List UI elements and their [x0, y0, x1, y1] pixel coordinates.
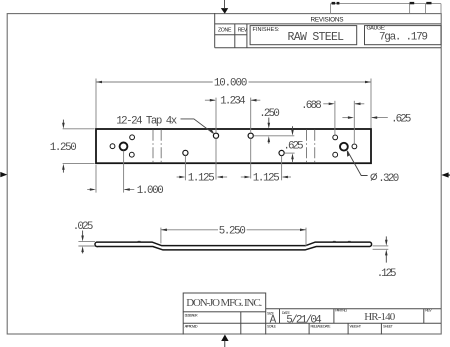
svg-text:SHEET: SHEET [383, 325, 394, 329]
revisions table [215, 13, 441, 48]
1.125a ext [184, 155, 186, 180]
1.125 dim b [241, 176, 291, 178]
svg-text:HR-140: HR-140 [364, 311, 396, 323]
centering mark right [441, 172, 450, 177]
svg-text:REVISIONS: REVISIONS [311, 16, 344, 23]
10.000 ext left / right [95, 79, 97, 129]
svg-text:1.000: 1.000 [137, 185, 164, 197]
svg-text:10.000: 10.000 [214, 78, 248, 90]
1.000 dim [87, 189, 134, 191]
svg-text:REV: REV [238, 27, 248, 33]
.688/.625 cols [334, 101, 336, 135]
plate outline [96, 129, 371, 163]
svg-text:1.234: 1.234 [220, 95, 246, 107]
centering mark top [221, 0, 228, 14]
svg-text:WEIGHT: WEIGHT [350, 325, 362, 329]
svg-text:ZONE: ZONE [218, 27, 232, 33]
col B x=250.7 [250, 98, 252, 133]
col A x=216 [215, 98, 217, 133]
holes [110, 133, 357, 157]
svg-text:12-24 Tap 4x: 12-24 Tap 4x [116, 115, 177, 127]
tap row ext to .625 [254, 135, 295, 137]
svg-text:A: A [270, 314, 277, 326]
svg-text:.625: .625 [283, 141, 303, 153]
svg-text:.688: .688 [301, 100, 322, 112]
side view hole bumps [137, 241, 351, 242]
svg-text:5.250: 5.250 [219, 225, 246, 237]
svg-text:FINISHES:: FINISHES: [253, 27, 280, 33]
svg-text:DESIGNER: DESIGNER [185, 313, 198, 317]
svg-text:.250: .250 [259, 108, 280, 120]
.125 dim [373, 246, 389, 249]
svg-text:1.250: 1.250 [50, 142, 77, 154]
bend centerlines [153, 130, 315, 163]
.625 top right dim [342, 117, 387, 119]
svg-text:5/21/04: 5/21/04 [286, 314, 322, 326]
svg-text:1.125: 1.125 [253, 173, 280, 185]
1.125b ext [281, 156, 283, 181]
svg-text:REV: REV [425, 309, 432, 313]
1.234 dim [205, 99, 260, 101]
svg-text:PART NO.: PART NO. [335, 309, 347, 313]
cut-off revision text marks [332, 2, 432, 5]
svg-text:RAW STEEL: RAW STEEL [288, 31, 345, 44]
svg-text:DON-JO MFG. INC.: DON-JO MFG. INC. [186, 297, 262, 309]
svg-text:APPROVED: APPROVED [185, 325, 198, 329]
svg-text:1.125: 1.125 [188, 173, 215, 185]
10.000 dim [96, 81, 371, 83]
1.250 ext [63, 128, 95, 130]
1.125 dim a [177, 176, 228, 178]
centering mark left [0, 172, 7, 177]
svg-text:.125: .125 [377, 268, 397, 280]
svg-text:.625: .625 [391, 113, 411, 125]
tiny labels [185, 309, 433, 329]
svg-text:.320: .320 [378, 173, 399, 185]
low hole row ext [284, 152, 294, 154]
revisions table cut-off row (top edge) [331, 4, 442, 13]
1.000 ext [95, 165, 97, 193]
extension lines (gray) [63, 79, 371, 193]
5.250 dim [161, 228, 306, 247]
Dia .320 note + leader [348, 151, 368, 176]
svg-text:7ga. .179: 7ga. .179 [379, 31, 428, 43]
centering mark bottom [221, 335, 228, 347]
